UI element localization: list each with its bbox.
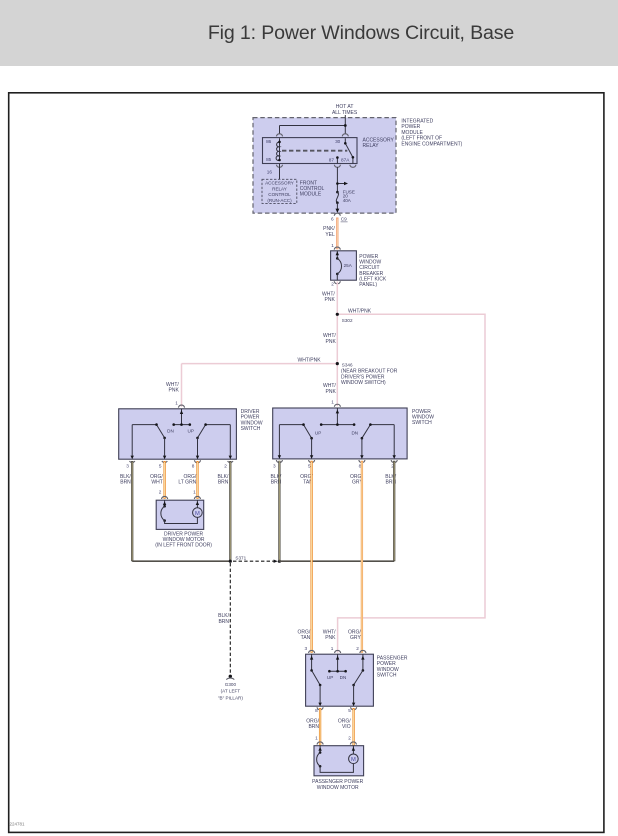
svg-text:MODULE: MODULE [300,192,322,198]
svg-text:86: 86 [266,139,272,144]
svg-text:SWITCH: SWITCH [412,420,432,426]
svg-text:87: 87 [329,157,335,162]
svg-text:PNK: PNK [169,388,180,394]
svg-text:2: 2 [348,736,351,741]
svg-text:G300: G300 [225,682,237,687]
svg-text:PANEL): PANEL) [359,282,377,288]
svg-text:2: 2 [224,464,227,469]
svg-text:8: 8 [315,708,318,713]
svg-text:25A: 25A [344,263,353,268]
svg-text:224781: 224781 [10,822,26,827]
svg-text:(RUN-ACC): (RUN-ACC) [267,198,292,203]
svg-text:S371: S371 [235,555,246,560]
svg-text:UP: UP [327,675,333,680]
svg-text:40A: 40A [343,198,352,203]
svg-text:1: 1 [331,243,334,248]
svg-text:SWITCH: SWITCH [241,426,261,432]
svg-text:WHT/PNK: WHT/PNK [348,309,372,315]
svg-text:5: 5 [159,464,162,469]
svg-text:30: 30 [335,139,341,144]
svg-text:1: 1 [175,400,178,405]
svg-text:UP: UP [315,430,321,435]
svg-text:YEL: YEL [325,232,335,238]
svg-text:87A: 87A [341,157,350,162]
svg-text:16: 16 [267,170,273,175]
svg-text:S302: S302 [342,318,353,323]
svg-text:3: 3 [126,464,129,469]
svg-text:WINDOW SWITCH): WINDOW SWITCH) [341,380,386,386]
svg-text:1: 1 [315,736,318,741]
svg-text:1: 1 [193,490,196,495]
svg-text:WHT/PNK: WHT/PNK [298,358,322,364]
svg-text:Fig 1: Power Windows Circuit,: Fig 1: Power Windows Circuit, Base [208,22,515,44]
svg-text:CONTROL: CONTROL [268,192,291,197]
svg-text:DN: DN [167,429,174,434]
svg-text:2: 2 [356,646,359,651]
svg-text:RELAY: RELAY [363,143,380,149]
svg-text:DN: DN [340,675,347,680]
svg-text:M: M [195,511,200,517]
svg-text:GRY: GRY [350,635,361,641]
svg-text:(AT LEFT: (AT LEFT [221,689,241,694]
svg-text:PNK: PNK [326,339,337,345]
svg-text:85: 85 [266,157,272,162]
svg-text:DN: DN [351,430,358,435]
svg-text:8: 8 [192,464,195,469]
svg-text:RELAY: RELAY [272,186,287,191]
svg-text:SWITCH: SWITCH [377,673,397,679]
svg-text:BRN: BRN [308,724,319,730]
svg-text:BRN: BRN [218,480,229,486]
svg-text:S346: S346 [342,362,353,367]
svg-text:3: 3 [304,646,307,651]
svg-text:PNK: PNK [325,297,336,303]
svg-text:TAN: TAN [301,635,311,641]
svg-text:UP: UP [188,429,194,434]
svg-text:WHT: WHT [151,480,162,486]
svg-text:(IN LEFT FRONT DOOR): (IN LEFT FRONT DOOR) [155,543,212,549]
svg-text:ACCESSORY: ACCESSORY [265,181,294,186]
svg-text:BRN: BRN [218,619,229,625]
svg-text:VIO: VIO [342,724,351,730]
svg-text:3: 3 [273,464,276,469]
svg-text:M: M [351,757,356,763]
svg-text:ENGINE COMPARTMENT): ENGINE COMPARTMENT) [401,142,462,148]
svg-text:LT GRN: LT GRN [178,480,196,486]
svg-text:C9: C9 [341,217,347,222]
svg-text:BRN: BRN [120,480,131,486]
svg-text:1: 1 [331,646,334,651]
svg-text:2: 2 [159,490,162,495]
svg-text:1: 1 [331,399,334,404]
svg-text:5: 5 [348,708,351,713]
svg-text:PNK: PNK [325,635,336,641]
svg-text:"B" PILLAR): "B" PILLAR) [218,696,243,701]
svg-text:6: 6 [331,217,334,222]
svg-text:2: 2 [331,281,334,286]
svg-text:WINDOW MOTOR: WINDOW MOTOR [317,785,359,791]
svg-text:PNK: PNK [326,389,337,395]
